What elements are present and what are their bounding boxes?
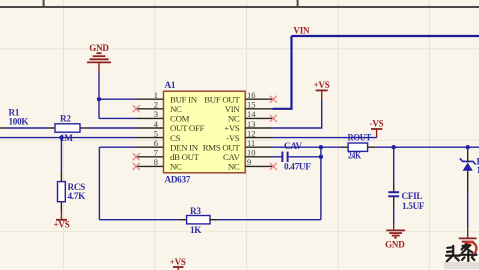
wire pin 12 to -VS	[272, 137, 376, 139]
resistor R3 1K	[179, 206, 218, 235]
pin 16 BUF OUT	[204, 90, 272, 104]
no-ERC marker pin 7	[133, 153, 140, 160]
power port GND (right edge)	[459, 229, 477, 248]
no-ERC marker pin 14	[270, 115, 277, 122]
wire CFIL to GND	[393, 205, 395, 223]
svg-text:5: 5	[154, 128, 158, 138]
svg-text:NC: NC	[228, 162, 240, 172]
svg-text:+VS: +VS	[170, 257, 186, 267]
capacitor CAV 0.47UF	[282, 152, 311, 172]
junction CFIL branch	[392, 145, 396, 149]
svg-text:6: 6	[154, 138, 158, 148]
power port -VS (right)	[370, 119, 384, 138]
power port GND (top left)	[87, 43, 111, 72]
junction at pin 1 row	[97, 97, 101, 101]
svg-text:RMS OUT: RMS OUT	[203, 142, 241, 152]
svg-text:NC: NC	[170, 162, 182, 172]
svg-text:GND: GND	[385, 239, 405, 249]
power port +VS (bottom middle, clipped)	[170, 257, 186, 270]
svg-text:+VS: +VS	[53, 220, 69, 230]
svg-text:14: 14	[247, 109, 256, 119]
wire down to CFIL	[393, 147, 395, 182]
svg-text:1K: 1K	[190, 225, 202, 235]
wire ROUT to CFIL junction and right edge	[375, 146, 479, 148]
wire GND to pin 3 COM	[99, 117, 137, 119]
svg-text:16: 16	[247, 90, 256, 100]
pin 8 NC	[137, 157, 183, 171]
svg-text:12: 12	[247, 128, 256, 138]
pin 5 CS	[137, 128, 181, 142]
pin 4 OUT OFF	[137, 119, 205, 133]
power port GND (below CFIL)	[385, 223, 405, 250]
svg-text:24K: 24K	[348, 151, 362, 161]
no-ERC marker pin 9	[270, 163, 277, 170]
wire CS net down to RCS	[60, 138, 62, 172]
wire GND vertical pin1 row to pin 3 row	[98, 99, 100, 118]
junction CS net / RCS	[59, 135, 63, 139]
pin 13 +VS	[224, 119, 272, 133]
svg-text:15: 15	[247, 100, 256, 110]
svg-text:7: 7	[154, 148, 158, 158]
svg-text:100K: 100K	[9, 117, 30, 127]
resistor ROUT 24K	[341, 143, 376, 161]
svg-text:+VS: +VS	[224, 123, 240, 133]
wire GND to pin 1 BUF IN	[99, 98, 137, 100]
svg-text:8: 8	[154, 157, 158, 167]
junction CAV row / R3 riser	[319, 155, 323, 159]
wire VIN horizontal (thick)	[292, 35, 479, 37]
svg-text:2: 2	[154, 100, 158, 110]
svg-text:4.7K: 4.7K	[68, 191, 87, 201]
resistor R2 1M	[48, 113, 89, 143]
wire R1 to R2	[7, 127, 48, 129]
pin 11 RMS OUT	[203, 138, 273, 152]
svg-text:BUF IN: BUF IN	[170, 94, 198, 104]
svg-text:CAV: CAV	[223, 152, 240, 162]
svg-text:NC: NC	[170, 104, 182, 114]
svg-text:-VS: -VS	[370, 119, 384, 129]
wire +VS to pin 13	[272, 100, 321, 128]
pin 2 NC	[137, 100, 183, 114]
power port +VS (below RCS)	[53, 212, 69, 230]
svg-text:13: 13	[247, 119, 256, 129]
svg-text:dB OUT: dB OUT	[170, 152, 200, 162]
svg-text:0.47UF: 0.47UF	[284, 162, 311, 172]
svg-text:DEN IN: DEN IN	[170, 142, 199, 152]
wire GND stem down to pin 1 row	[98, 73, 100, 100]
power port +VS (top right)	[314, 80, 330, 100]
watermark toutiao	[444, 242, 479, 269]
wire R3 to riser	[218, 219, 321, 221]
svg-text:R2: R2	[60, 113, 71, 123]
wire pin 6 DEN IN to corner	[99, 146, 136, 148]
svg-text:9: 9	[247, 157, 251, 167]
no-ERC marker pin 2	[133, 105, 140, 112]
svg-text:COM: COM	[170, 114, 190, 124]
svg-text:A1: A1	[165, 80, 176, 90]
no-ERC marker pin 8	[133, 163, 140, 170]
resistor RCS 4.7K	[58, 172, 87, 212]
svg-text:VIN: VIN	[293, 25, 310, 35]
svg-text:11: 11	[247, 138, 255, 148]
wire pin 5 CS net to left edge	[0, 137, 137, 139]
wire riser R3 to CAV row	[320, 147, 322, 220]
svg-text:VIN: VIN	[225, 104, 241, 114]
resistor R1 100K (clipped at left image edge)	[0, 107, 29, 128]
svg-text:NC: NC	[228, 114, 240, 124]
pin 15 VIN	[225, 100, 273, 114]
pin 14 NC	[228, 109, 272, 123]
pin 3 COM	[137, 109, 190, 123]
svg-text:BUF OUT: BUF OUT	[204, 94, 240, 104]
junction diode branch	[466, 145, 470, 149]
pin 7 dB OUT	[137, 148, 200, 162]
svg-text:R3: R3	[190, 206, 201, 216]
pin 1 BUF IN	[137, 90, 198, 104]
wire pin 11 RMS OUT to junction	[272, 146, 340, 148]
svg-text:CFIL: CFIL	[402, 191, 423, 201]
svg-text:10: 10	[247, 148, 256, 158]
no-ERC marker pin 16	[270, 96, 277, 103]
svg-text:OUT OFF: OUT OFF	[170, 123, 205, 133]
zener diode (right, designator clipped)	[460, 147, 479, 193]
svg-text:1.5UF: 1.5UF	[402, 201, 425, 211]
svg-text:3: 3	[154, 109, 158, 119]
svg-text:AD637: AD637	[165, 175, 191, 185]
svg-text:1: 1	[154, 90, 158, 100]
junction RMS row / R3 riser	[319, 145, 323, 149]
svg-text:+VS: +VS	[314, 80, 330, 90]
wire R2 to pin 4 OUT OFF	[88, 127, 137, 129]
wire VIN riser to pin 15 (thick)	[272, 36, 291, 109]
svg-text:CAV: CAV	[284, 141, 302, 151]
svg-text:CS: CS	[170, 133, 181, 143]
wire CAV cap to riser junction	[289, 156, 321, 158]
wire DEN IN net to R3	[99, 219, 179, 221]
svg-text:-VS: -VS	[226, 133, 240, 143]
capacitor CFIL 1.5UF	[388, 182, 425, 211]
pin 6 DEN IN	[137, 138, 199, 152]
wire pin 10 to CAV cap	[272, 156, 281, 158]
svg-text:GND: GND	[89, 43, 109, 53]
wire DEN IN net vertical	[98, 147, 100, 220]
IC A1 AD637 body	[164, 91, 246, 173]
pin 12 -VS	[226, 128, 272, 142]
wire diode to GND	[467, 193, 469, 229]
pin 9 NC	[228, 157, 272, 171]
pin 10 CAV	[223, 148, 272, 162]
